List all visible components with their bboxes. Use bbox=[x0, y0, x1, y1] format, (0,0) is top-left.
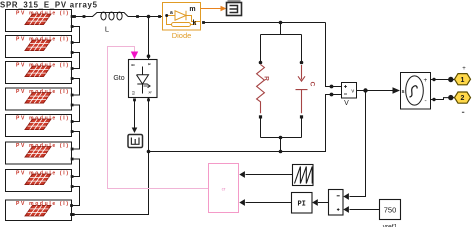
wire sawtooth to pulse gen bbox=[246, 174, 293, 176]
PI controller bbox=[292, 193, 313, 214]
wire v to sum bbox=[350, 91, 366, 197]
svg-text:SPR_315_E_PV array5: SPR_315_E_PV array5 bbox=[0, 1, 98, 10]
wire k rail to V+ bbox=[326, 23, 342, 87]
svg-text:v: v bbox=[351, 89, 354, 95]
svg-text:750: 750 bbox=[384, 205, 397, 214]
wire RC top bbox=[261, 23, 302, 35]
node junction v output bbox=[363, 88, 367, 92]
PV module 3 bbox=[6, 62, 74, 84]
sawtooth generator bbox=[293, 165, 314, 186]
GTO Q1 bbox=[129, 60, 158, 98]
capacitor C bbox=[296, 35, 316, 138]
wire series bracket 3-4 bbox=[72, 79, 80, 96]
gate arrowhead magenta bbox=[131, 52, 138, 60]
AC source input arrow bbox=[393, 87, 401, 93]
resistor R bbox=[257, 35, 270, 138]
voltage measurement V1 bbox=[342, 83, 357, 99]
wire RC bottom bbox=[261, 138, 302, 152]
sum block bbox=[329, 190, 344, 216]
wire series bracket 5-6 bbox=[72, 132, 80, 150]
svg-text:1: 1 bbox=[461, 77, 465, 84]
svg-text:R: R bbox=[263, 76, 270, 81]
constant vref1 750 bbox=[380, 200, 401, 220]
svg-text:-: - bbox=[425, 98, 427, 105]
svg-text:PI: PI bbox=[297, 201, 305, 209]
PV module 8 bbox=[6, 200, 73, 221]
svg-text:s: s bbox=[402, 89, 405, 95]
wire v output bbox=[357, 90, 393, 92]
wire series bracket 7-8 bbox=[72, 187, 80, 206]
PV module 1 bbox=[6, 10, 74, 32]
PV module 5 bbox=[6, 115, 74, 137]
wire lower rail to V- bbox=[149, 95, 342, 152]
svg-text:Diode: Diode bbox=[172, 31, 192, 40]
wire AC - to port 2 bbox=[431, 98, 456, 100]
wire series bracket 4-5 bbox=[72, 105, 80, 122]
scope S1 (diode m) bbox=[227, 0, 242, 16]
AC source U1 bbox=[401, 73, 431, 110]
svg-text:2: 2 bbox=[461, 95, 465, 102]
wire vref to sum bbox=[350, 209, 380, 211]
wire PI to pulse gen bbox=[246, 202, 292, 204]
port 1 bbox=[455, 66, 471, 85]
svg-text:+: + bbox=[424, 77, 428, 84]
wire series bracket 1-2 bbox=[72, 27, 80, 43]
wire gate (pink) bbox=[108, 47, 209, 189]
node junction top rail to GTO anode bbox=[147, 15, 151, 19]
svg-text:vref1: vref1 bbox=[383, 224, 398, 228]
wire GTO cathode bbox=[147, 99, 150, 102]
PV module 4 bbox=[6, 88, 74, 110]
svg-text:+: + bbox=[462, 66, 466, 72]
svg-text:L: L bbox=[105, 25, 109, 34]
wire sum to PI bbox=[318, 202, 329, 204]
pulse generator subsystem (pink) bbox=[209, 164, 239, 213]
wire GTO anode drop bbox=[148, 17, 150, 60]
PV module 6 bbox=[6, 142, 74, 164]
svg-text:V: V bbox=[344, 100, 349, 107]
wire top dc rail bbox=[72, 16, 94, 18]
svg-text:g: g bbox=[131, 64, 136, 67]
node junction k rail / RC bbox=[279, 21, 283, 25]
svg-text:Gto: Gto bbox=[113, 75, 124, 82]
wire series bracket 2-3 bbox=[72, 53, 80, 69]
svg-text:cr: cr bbox=[222, 187, 226, 192]
inductor L bbox=[93, 12, 129, 20]
wire series bracket 6-7 bbox=[72, 159, 80, 177]
node junction cathode / lower rail bbox=[147, 150, 151, 154]
node PV minus terminal bbox=[72, 213, 75, 216]
svg-text:m: m bbox=[189, 6, 195, 13]
port 2 bbox=[455, 92, 471, 112]
svg-text:a: a bbox=[147, 63, 152, 66]
PV module 7 bbox=[6, 170, 74, 192]
scope S2 (GTO m) bbox=[128, 135, 143, 148]
svg-text:k: k bbox=[193, 20, 197, 27]
diode block D1 bbox=[163, 3, 201, 31]
svg-text:C: C bbox=[309, 82, 316, 87]
PV module 2 bbox=[6, 36, 74, 58]
wire k rail bbox=[204, 22, 326, 24]
wire diode m to scope bbox=[201, 8, 222, 10]
svg-text:m: m bbox=[131, 91, 136, 95]
svg-text:a: a bbox=[170, 10, 173, 16]
wire GTO m to scope bbox=[133, 99, 136, 102]
wire AC + to port 1 bbox=[431, 79, 456, 81]
